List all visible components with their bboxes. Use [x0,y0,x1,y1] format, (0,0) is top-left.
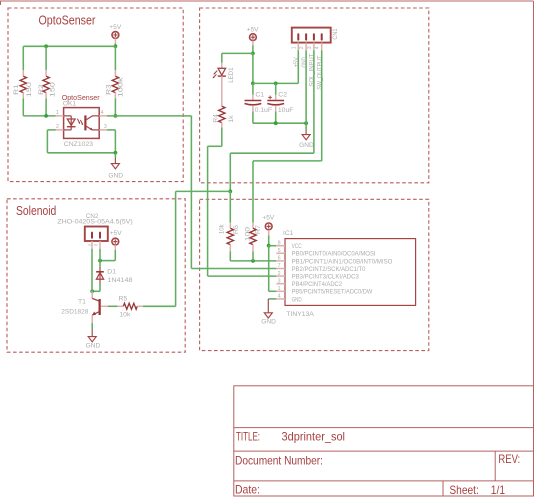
wire VCC to RESET pin 1 [268,246,270,292]
wire R2 bottom to net [45,99,47,116]
capacitor C2 10uF polarized [275,83,277,94]
svg-text:R6: R6 [233,225,240,234]
wire +5V to CN2 pin2 net [114,250,116,261]
wire net to opto pin1 [23,115,56,117]
wire top rail to R1 [22,46,24,70]
svg-text:1: 1 [291,46,297,49]
wire CN1 pin4 SW_OUTPUT [321,50,323,161]
IC1 pin 7 stub [276,268,285,270]
svg-text:GND: GND [302,57,308,68]
transistor T1 2SD1828 [91,291,93,298]
wire opto pin2 loop [47,129,55,131]
CN2 pin 2 stub [99,241,101,249]
svg-text:R7: R7 [255,225,262,234]
ground symbol MCU [267,299,269,313]
svg-text:2: 2 [299,46,305,49]
opto pin 1 stub [56,115,64,117]
IC1 pin 6 stub [276,260,285,262]
svg-text:TITLE:: TITLE: [236,429,260,443]
svg-text:GND: GND [292,297,303,303]
IC1 pin 3 stub [276,283,285,285]
wire R7 to PB1 net [252,252,254,261]
svg-text:+5V: +5V [262,215,275,222]
CN1 pin 4 stub [321,43,323,51]
IC1 pin 4 stub [276,298,285,300]
node junction R2 top [44,44,48,48]
svg-text:ZHO-0420S-05A4.5(5V): ZHO-0420S-05A4.5(5V) [57,219,132,226]
CN1 pin 3 contact [313,34,315,39]
svg-text:Solenoid: Solenoid [16,204,56,218]
svg-text:1: 1 [278,286,281,292]
node junction CN2 pin2 +5V [98,259,102,263]
CN2 pin 1 contact [91,233,93,238]
resistor R3 100k [114,70,116,76]
wire R6 to PB1 net [229,252,231,261]
wire SOL_INPUT to solenoid R5 [176,190,231,192]
svg-text:100: 100 [244,226,251,241]
node junction C2 bottom [274,121,278,125]
resistor R1 150 [22,70,24,76]
svg-text:OK1: OK1 [63,101,77,108]
CN1 pin 2 stub [305,43,307,51]
CN1 pin 3 stub [313,43,315,51]
CN2 pin 2 contact [99,233,101,238]
connector CN2 body [85,227,108,242]
svg-text:GND: GND [108,173,123,180]
svg-text:1/1: 1/1 [491,483,505,497]
svg-text:PB2/PCINT2/SCK/ADC1/T0: PB2/PCINT2/SCK/ADC1/T0 [292,267,367,273]
resistor R7 100 [252,223,254,229]
LED LED1 [221,63,223,68]
title block outer box [234,386,534,496]
svg-text:2: 2 [278,271,281,277]
svg-text:T1: T1 [78,299,86,306]
svg-text:Document Number:: Document Number: [235,454,323,468]
svg-text:Sheet:: Sheet: [449,483,478,497]
svg-text:SOL_INPUT: SOL_INPUT [310,53,316,86]
svg-text:+5V: +5V [109,24,122,31]
svg-text:GND: GND [86,343,101,350]
svg-text:7: 7 [278,263,281,269]
svg-text:1N4148: 1N4148 [107,277,132,284]
LED1 to R4 leads [221,76,223,106]
title block line above Document row [234,450,534,452]
IC1 pin 2 stub [276,275,285,277]
C2 polarity mark [268,96,272,98]
node junction SOL_INPUT split [228,190,232,194]
svg-text:0.1uF: 0.1uF [255,107,272,114]
wire VCC to IC pin 8 [269,245,277,247]
svg-text:R3: R3 [106,84,113,95]
CN1 pin 1 contact [297,34,299,39]
svg-text:3: 3 [278,278,281,284]
sheet frame right line [533,1,535,496]
title block REV divider [494,451,496,481]
wire opto pin3 down [107,129,116,131]
node junction R7 bottom [251,259,255,263]
opto phototransistor [84,115,86,130]
svg-text:PB0/PCINT0/AIN0/OC0A/MOSI: PB0/PCINT0/AIN0/OC0A/MOSI [292,252,376,258]
resistor R6 10k [229,223,231,229]
wire D1 anode to collector net [99,284,101,291]
svg-text:LED1: LED1 [228,67,235,83]
node junction GND net opto [114,151,118,155]
svg-text:5: 5 [278,248,281,254]
wire R3 bottom to net [114,99,116,116]
svg-text:150: 150 [49,82,56,98]
title block line above TITLE row [234,427,534,429]
wire +5V to VCC [268,235,270,245]
resistor R5 10k [118,305,124,307]
node junction cap rail C1 [251,82,255,86]
svg-text:150: 150 [26,82,33,98]
node junction +5V rail [251,52,255,56]
sheet frame top line [0,0,534,2]
wire R4 to MCU PB3 [221,128,223,147]
svg-text:2SD1828: 2SD1828 [61,309,88,316]
svg-text:R5: R5 [119,295,128,302]
wire T1 emitter to ground [91,323,93,330]
svg-text:6: 6 [278,256,281,262]
opto pin 4 stub [99,115,107,117]
IC1 pin 8 stub [276,245,285,247]
svg-text:GND: GND [299,142,314,149]
wire to D1 cathode [99,261,101,267]
node junction top rail at +5V [114,44,118,48]
IC1 pin 1 stub [276,290,285,292]
wire CN1 pin1 +5V [297,50,299,83]
svg-text:+5V: +5V [110,230,123,237]
IC1 pin 5 stub [276,252,285,254]
CN1 pin 1 stub [297,43,299,51]
svg-text:1: 1 [56,110,59,116]
diode D1 1N4148 [99,267,101,272]
opto light arrows [77,119,79,123]
wire CN2 pin1 down to collector [91,249,93,291]
wire +5V to rail [252,46,254,54]
wire CN1 pin3 SOL_INPUT [313,50,315,153]
svg-text:REV:: REV: [498,452,520,466]
node junction collector [90,289,94,293]
ground symbol T1 [91,329,93,336]
svg-text:+5V: +5V [247,27,260,34]
svg-text:PB3/PCINT3/CLKI/ADC3: PB3/PCINT3/CLKI/ADC3 [292,275,360,281]
svg-text:R2: R2 [38,84,45,95]
svg-text:P$2: P$2 [94,243,98,247]
title block line above Date row [234,480,534,482]
wire cap rail horizontal [253,82,298,84]
wire CN2 pin2 down [99,249,101,261]
svg-text:3: 3 [307,46,313,49]
svg-text:Date:: Date: [235,482,260,496]
svg-text:1k: 1k [228,115,235,123]
wire cap ground rail [253,122,306,124]
svg-text:10uF: 10uF [278,107,294,114]
svg-text:+5V: +5V [294,57,300,67]
CN1 pin 4 contact [321,34,323,39]
svg-text:TINY13A: TINY13A [286,311,314,318]
svg-text:R4: R4 [212,114,219,123]
svg-text:4: 4 [278,294,281,300]
dashed box connector module top-right [200,8,429,183]
svg-text:C1: C1 [255,91,264,98]
opto pin 3 stub [99,129,107,131]
svg-text:OptoSenser: OptoSenser [39,14,96,28]
svg-text:2: 2 [56,124,59,130]
wire top rail horizontal [23,45,115,47]
svg-text:10k: 10k [119,312,131,319]
IC IC1 body TINY13A [285,239,416,306]
dashed box Solenoid module [7,199,185,352]
node junction R2 bottom [44,114,48,118]
wire CN1 pin2 GND down [305,50,307,123]
wire T1 base to R5 [108,305,118,307]
CN1 pin 2 contact [305,34,307,39]
svg-text:100k: 100k [117,77,124,98]
svg-text:10k: 10k [219,224,226,234]
node junction gnd drop [304,121,308,125]
svg-text:R1: R1 [13,84,20,95]
wire +5V rail down to cap rail [252,53,254,83]
LED1 emission arrows [214,71,217,74]
node junction VCC [267,244,271,248]
node junction cap rail C2 [274,82,278,86]
svg-text:SW_OUTPUT: SW_OUTPUT [317,55,323,89]
wire +5V to top rail [114,44,116,47]
capacitor C1 0.1uF [252,83,254,94]
svg-text:PB1/PCINT1/AIN1/OC0B/INT0/MISO: PB1/PCINT1/AIN1/OC0B/INT0/MISO [292,259,393,265]
svg-text:4: 4 [315,46,321,49]
ground symbol opto [114,153,116,158]
ground symbol connector [305,130,307,135]
opto pin 2 stub [56,129,64,131]
svg-text:3dprinter_sol: 3dprinter_sol [282,429,346,443]
svg-text:VCC: VCC [292,244,303,250]
wire +5V rail to R3 [114,46,116,70]
wire IC pin 4 GND [268,298,276,300]
svg-text:IC1: IC1 [283,230,294,237]
resistor R2 150 [45,70,47,76]
wire R1 bottom to net [22,99,24,116]
svg-text:PB5/PCINT5/RESET/ADC0/DW: PB5/PCINT5/RESET/ADC0/DW [292,290,373,296]
connector CN1 body [292,28,331,43]
svg-text:3: 3 [104,124,107,130]
svg-text:C2: C2 [278,91,287,98]
svg-text:4: 4 [101,110,104,116]
svg-text:8: 8 [278,240,281,246]
CN2 pin 1 stub [91,241,93,249]
sheet frame left stub [0,1,2,6]
wire top rail to R2 [45,46,47,70]
wire opto pin4 output to MCU PB2 [107,115,192,117]
svg-text:CNZ1023: CNZ1023 [64,141,94,148]
wire rail to LED1 [222,52,253,54]
svg-text:GND: GND [261,318,276,325]
wire SOL_INPUT to R6 [229,191,231,222]
resistor R4 1k [219,106,225,122]
dashed box MCU module bottom-right [200,199,429,350]
opto internal LED [64,115,72,117]
dashed box OptoSenser module [8,8,183,182]
node junction opto pin4 net [114,114,118,118]
optocoupler OK1 body CNZ1023 [64,108,100,139]
svg-text:D1: D1 [107,269,116,276]
title block Sheet divider [442,481,444,496]
svg-text:CN1: CN1 [332,28,339,39]
svg-text:PB4/PCINT4/ADC2: PB4/PCINT4/ADC2 [292,282,343,288]
